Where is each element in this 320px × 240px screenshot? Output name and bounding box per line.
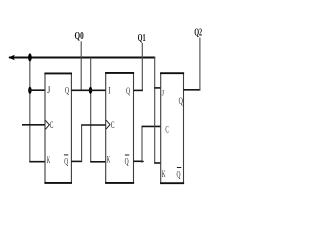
svg-text:Q: Q xyxy=(125,157,129,167)
wire: C3 input xyxy=(142,125,161,127)
flip-flop U3 box xyxy=(160,73,184,183)
wire: rail drop to J2 node xyxy=(90,58,92,162)
clock chevron U1 xyxy=(45,120,49,129)
wire: rail corner drop to J3/K3 xyxy=(154,57,156,163)
node: junction dot at J1 branch xyxy=(28,87,31,94)
svg-text:Q: Q xyxy=(177,170,181,180)
wire: vertical drop from rail to J1/K1 xyxy=(29,58,31,162)
wire: Q2 label lead xyxy=(199,38,201,91)
node: junction dot at J2 wire xyxy=(89,87,92,94)
wire: riser from Qbar2 up to C3 xyxy=(141,126,143,161)
svg-text:Q: Q xyxy=(65,86,69,96)
svg-text:I: I xyxy=(108,85,110,95)
wire: K1 input xyxy=(29,161,45,163)
svg-text:Q: Q xyxy=(64,156,68,166)
left arrowhead on rail xyxy=(8,55,15,61)
svg-text:Q2: Q2 xyxy=(194,28,202,39)
svg-text:Q0: Q0 xyxy=(75,31,84,42)
svg-text:C: C xyxy=(165,125,168,135)
wire: J1 input xyxy=(29,89,45,91)
svg-text:K: K xyxy=(47,155,51,165)
wire: Q1 label lead down to Q2 output wire xyxy=(141,43,143,90)
svg-text:J: J xyxy=(47,85,51,95)
wire: K3 input xyxy=(154,162,161,164)
svg-text:Q: Q xyxy=(126,86,130,96)
wire: K2 input xyxy=(90,161,106,163)
svg-text:K: K xyxy=(107,154,111,164)
wire: C2 input xyxy=(81,124,106,126)
svg-text:Q1: Q1 xyxy=(138,33,146,44)
wire: top rail (J/K supply line) xyxy=(9,57,155,59)
wire: U1 Qbar output xyxy=(71,160,82,162)
wire: J3 input xyxy=(154,87,161,89)
wire: U3 Q output xyxy=(184,89,201,91)
wire: clock input stub to C1 xyxy=(22,124,45,126)
flip-flop U1 box xyxy=(44,73,72,182)
svg-text:C: C xyxy=(111,120,115,130)
svg-text:K: K xyxy=(162,169,166,179)
clock chevron U2 xyxy=(106,120,110,129)
wire: Q0 label lead down to Q1 output wire xyxy=(80,41,82,90)
wire: U2 Q output xyxy=(134,89,143,91)
flip-flop U2 box xyxy=(105,73,134,183)
node: junction dot on rail xyxy=(28,53,32,61)
wire: U1 Q output to U2 J input xyxy=(71,89,106,91)
wire: riser from Qbar1 up to C2 xyxy=(81,125,83,162)
wire: U2 Qbar output xyxy=(134,160,143,162)
svg-text:C: C xyxy=(50,120,54,130)
svg-text:Q: Q xyxy=(179,96,184,106)
